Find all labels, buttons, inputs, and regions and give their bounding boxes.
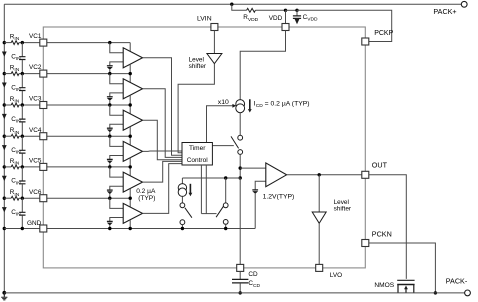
pin OUT [362,171,369,178]
svg-text:CIN: CIN [11,53,21,62]
wire comparator U2 - input [110,93,123,97]
wire comparator U1 + input [110,43,123,53]
op-amp U1 [123,48,142,68]
capacitor C_IN 2 [21,74,23,88]
pin LVO [316,264,323,271]
wire timer control lines to switch S2 [200,165,202,214]
node GND supply junction [129,227,132,230]
node VC3 input junction [108,103,111,106]
node C_CD on PACK- wire [239,291,242,294]
current source x10 [236,100,245,109]
svg-text:Control: Control [187,157,209,164]
wire comparator U6 V- supply to GND [129,220,131,228]
svg-text:RIN: RIN [10,96,20,105]
svg-text:VC5: VC5 [29,158,42,165]
node A comparator input [239,166,242,169]
wire GND row [4,228,40,230]
wire PACK- bottom rail [4,292,464,294]
wire comparator U3 - input [110,124,123,128]
level shifter U7 [207,54,222,64]
pin LVIN [211,24,218,31]
svg-text:x10: x10 [218,99,229,106]
node C_IN top 3 [21,103,24,106]
op-amp U6 [123,203,142,223]
wire U8 - input reference [255,181,266,190]
resistor R_VDD [232,4,247,10]
node C_VDD tap [286,9,298,11]
capacitor C_IN 3 [21,105,23,119]
resistor R_IN 3 [4,104,11,106]
svg-text:LVIN: LVIN [197,15,212,22]
wire U8 output to OUT [287,174,362,176]
svg-text:CIN: CIN [11,209,21,218]
wire comparator U5 V+ supply [129,158,131,176]
node S2 on GND [224,227,227,230]
node R_VDD tap on PACK+ rail [230,2,233,5]
svg-text:PCKP: PCKP [374,30,393,37]
pin VC4 [47,135,130,137]
svg-text:RIN: RIN [10,158,20,167]
wire current source to switch S1 [239,113,241,136]
wire comparator U6 output [143,164,183,214]
svg-text:LVO: LVO [330,272,342,279]
battery cell arrow 4 [2,145,7,150]
svg-text:CIN: CIN [11,178,21,187]
pin PCKP [362,38,369,45]
wire comparator U5 - input [110,186,123,190]
capacitor C_IN 1 [21,43,23,57]
diode D1 reference [107,65,113,67]
node PCKN on PACK- wire [434,291,437,294]
node B bias join [239,176,242,179]
svg-text:CIN: CIN [11,84,21,93]
diode D7 1.2V reference [252,189,258,191]
node VC2 input junction [108,72,111,75]
wire comparator U4 + input [110,136,123,146]
resistor R_IN 6 [4,197,11,199]
svg-text:RIN: RIN [10,189,20,198]
node VC2 supply junction [129,72,132,75]
capacitor C_VDD [296,10,298,15]
node bias to S2 [224,176,227,179]
node C_IN top 2 [21,72,24,75]
wire left battery rail [3,4,5,293]
IC outline [43,27,365,268]
resistor R_IN 2 [4,73,11,75]
node battery tap 2 [3,72,6,75]
wire timer to S1 control [212,145,233,147]
wire comparator U1 output [143,58,183,155]
wire S1 to node A [239,154,241,178]
switch S3 [181,196,183,203]
svg-text:RIN: RIN [10,34,20,43]
pin CD [237,264,244,271]
svg-text:VC1: VC1 [29,33,42,40]
node VC4 supply junction [129,135,132,138]
wire comparator U2 output [143,89,183,158]
battery cell arrow 6 [2,207,7,212]
switch S2 [225,178,227,203]
node VDD [284,9,287,12]
wire U9 to LVO pin [318,223,320,264]
pin VC6 [47,197,130,199]
svg-text:RIN: RIN [10,65,20,74]
wire comparator U4 output [143,150,183,152]
capacitor C_IN 6 [21,198,23,212]
wire comparator U5 output [143,161,183,182]
wire CD column [239,178,241,264]
current source 0.2uA [181,178,183,184]
node GND diode junction [108,227,111,230]
wire VDD pin to current source [240,31,285,100]
battery cell arrow 3 [2,114,7,119]
diode D6 reference [107,220,113,222]
wire comparator U2 V+ supply [129,64,131,82]
current direction arrow I_CD [249,99,251,109]
svg-text:shifter: shifter [189,63,207,70]
node battery tap 4 [3,135,6,138]
wire comparator U5 + input [110,167,123,177]
op-amp U2 [123,79,142,99]
wire comparator U6 + input [110,198,123,208]
svg-text:shifter: shifter [334,206,352,213]
svg-text:VC2: VC2 [29,64,42,71]
node battery tap 6 [3,197,6,200]
terminal PACK- [465,290,471,296]
capacitor C_IN 5 [21,167,23,181]
node VC3 supply junction [129,103,132,106]
wire level shifter to timer [178,64,214,153]
svg-text:VDD: VDD [269,15,283,22]
block Timer Control [182,143,212,166]
node rail bottom [2,291,6,295]
svg-text:(TYP): (TYP) [138,195,155,202]
switch S1 [238,135,243,140]
pin VDD [285,10,287,23]
node VC1 input junction [108,41,111,44]
battery cell arrow 5 [2,176,7,181]
ground [3,293,5,297]
wire to level shifter U9 [318,175,320,212]
svg-text:VC4: VC4 [29,127,42,134]
svg-text:GND: GND [27,220,42,227]
wire LVIN to level shifter [213,31,215,54]
pin VC5 [47,166,130,168]
op-amp U8 [266,163,287,187]
node C_IN top 4 [21,135,24,138]
svg-text:RIN: RIN [10,127,20,136]
wire comparator U1 - input [110,62,123,66]
op-amp U5 [123,172,142,192]
wire comparator U2 + input [110,74,123,84]
svg-text:1.2V(TYP): 1.2V(TYP) [263,193,295,200]
pin VC1 [47,42,130,44]
diode D2 reference [107,96,113,98]
wire comparator U4 V+ supply [129,127,131,145]
level shifter U9 [312,212,326,223]
node VC4 input junction [108,135,111,138]
resistor R_IN 5 [4,166,11,168]
wire comparator U3 output [143,120,183,160]
svg-text:PACK-: PACK- [446,277,468,286]
node VC5 supply junction [129,165,132,168]
svg-text:VC3: VC3 [29,96,42,103]
wire comparator U6 V+ supply [129,189,131,207]
battery cell arrow 2 [2,83,7,88]
node battery tap 5 [3,165,6,168]
wire PACK+ top rail [4,3,461,5]
node VC6 supply junction [129,197,132,200]
svg-text:RVDD: RVDD [243,14,258,23]
svg-text:OUT: OUT [372,161,388,170]
op-amp U3 [123,110,142,130]
node battery tap 7 [3,227,6,230]
pin VC3 [47,104,130,106]
wire comparator U3 V+ supply [129,96,131,114]
svg-text:Timer: Timer [189,145,206,152]
wire VDD to PCKP external [297,10,392,41]
diode D3 reference [107,127,113,129]
pin PCKN [362,240,369,247]
pin GND [47,228,255,230]
diode D5 reference [107,189,113,191]
wire OUT to NMOS gate [369,175,407,279]
wire comparator U4 - input [110,156,123,160]
node battery tap 1 [3,41,6,44]
op-amp U4 [123,141,142,161]
wire comparator U1 V+ supply [129,43,131,52]
node level shifter tap [318,173,321,176]
node C_IN bottom on GND wire [21,227,24,230]
svg-text:CIN: CIN [11,116,21,125]
node VC5 input junction [108,165,111,168]
terminal PACK+ [461,1,467,7]
x10 control arrow from timer [207,106,233,143]
svg-text:CVDD: CVDD [303,14,318,23]
node VC6 input junction [108,197,111,200]
wire comparator U3 + input [110,105,123,115]
wire comparator U6 - input [110,218,123,222]
capacitor C_CD [239,271,241,279]
node C_IN top 6 [21,197,24,200]
transistor NMOS [397,279,414,281]
resistor R_IN 4 [4,135,11,137]
node battery tap 3 [3,103,6,106]
diode D4 reference [107,158,113,160]
svg-text:PACK+: PACK+ [433,7,456,16]
wire bias rail [182,177,240,179]
svg-text:CIN: CIN [11,147,21,156]
pin VC2 [47,73,130,75]
wire PCKN to PACK- [369,243,436,293]
svg-text:NMOS: NMOS [374,282,394,289]
node C_IN top 5 [21,165,24,168]
resistor R_IN 1 [4,42,11,44]
svg-text:PCKN: PCKN [372,229,392,238]
svg-text:ICD = 0.2 µA (TYP): ICD = 0.2 µA (TYP) [254,101,310,110]
node C_IN top 1 [21,41,24,44]
svg-text:CCD: CCD [248,280,260,289]
capacitor C_IN 4 [21,136,23,150]
svg-text:VC6: VC6 [29,189,42,196]
svg-text:CD: CD [248,271,258,278]
node S3 on GND [181,227,184,230]
battery cell arrow 1 [2,52,7,57]
wire node A to comparator U8 [240,167,266,169]
